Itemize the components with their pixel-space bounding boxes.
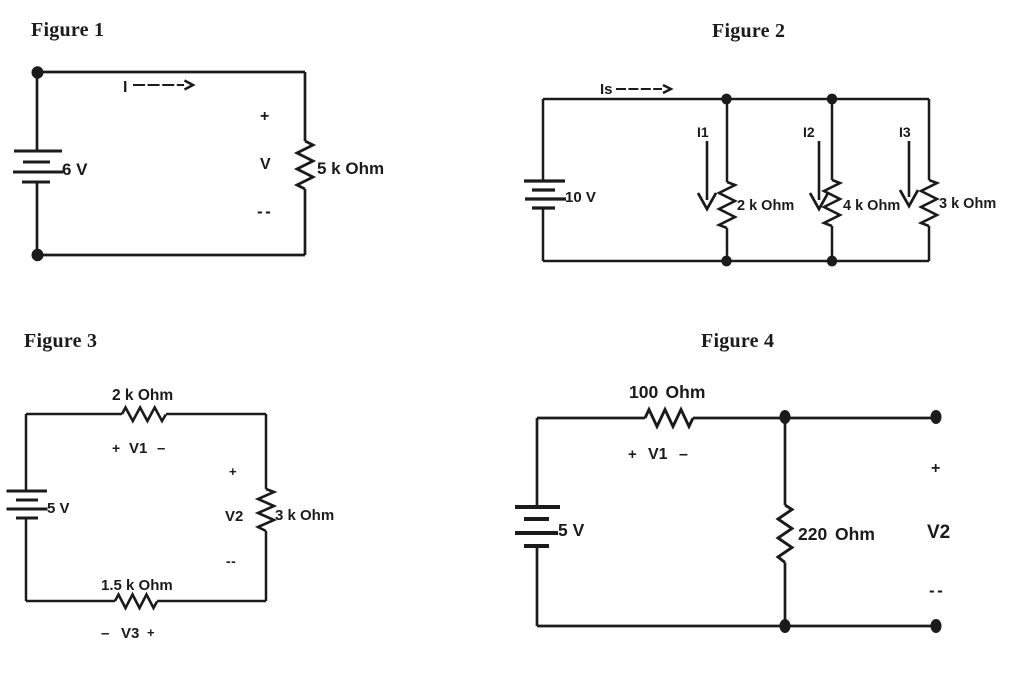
wire: fig3 bottom wire left segment (26, 600, 115, 603)
svg-text:Figure 2: Figure 2 (712, 20, 785, 42)
node: fig4 bottom-right terminal dot (931, 619, 942, 633)
battery 5V (fig3) (7, 491, 48, 518)
node: fig1 bottom-left junction dot (32, 249, 44, 261)
figure title: Figure 2 (712, 20, 785, 42)
wire: fig1 right wire lower (304, 189, 307, 255)
current arrow I (dashed) (123, 79, 193, 96)
svg-text:I2: I2 (803, 124, 815, 140)
wire: fig2 bottom wire (543, 260, 929, 263)
value label: 3 k Ohm (939, 196, 996, 212)
polarity label - (V2 fig3) (226, 553, 236, 569)
svg-text:V3: V3 (121, 625, 139, 642)
wire: fig2 top wire (543, 98, 929, 101)
svg-text:5 k Ohm: 5 k Ohm (317, 159, 384, 178)
svg-text:10 V: 10 V (565, 189, 596, 206)
wire: fig1 left wire lower (battery - to bottom) (36, 183, 39, 255)
svg-text:I: I (123, 79, 127, 96)
voltage label + V1 - (fig4) (628, 446, 688, 463)
svg-text:Figure 3: Figure 3 (24, 330, 97, 352)
wire: fig2 left wire lower (542, 209, 545, 261)
svg-text:I3: I3 (899, 124, 911, 140)
svg-text:V: V (260, 156, 271, 173)
svg-text:--: -- (226, 553, 236, 569)
current arrow I2 (803, 124, 828, 209)
svg-text:2 k Ohm: 2 k Ohm (112, 387, 173, 404)
value label: 1.5 k Ohm (101, 577, 173, 594)
wire: fig1 top wire (37, 71, 305, 74)
voltage label V2 (fig3) (225, 508, 243, 525)
node: fig4 top junction dot (node A) (780, 410, 791, 424)
svg-text:Figure 4: Figure 4 (701, 330, 774, 352)
svg-text:V1: V1 (129, 440, 147, 457)
svg-text:+: + (260, 108, 269, 125)
wire: fig3 left wire lower (25, 519, 28, 601)
resistor 3 k Ohm (fig3 right) (258, 489, 274, 531)
resistor 2 k Ohm (fig3 top) (122, 408, 166, 422)
value label: 4 k Ohm (843, 198, 900, 214)
svg-text:4 k Ohm: 4 k Ohm (843, 198, 900, 214)
wire: fig2 right wire lower (928, 226, 931, 261)
value label: 2 k Ohm (fig3) (112, 387, 173, 404)
wire: fig2 left wire upper (542, 99, 545, 181)
svg-text:220 Ohm: 220 Ohm (798, 524, 875, 544)
svg-text:100 Ohm: 100 Ohm (629, 382, 705, 402)
wire: fig4 top wire right segment (693, 417, 936, 420)
figure title: Figure 3 (24, 330, 97, 352)
polarity label + (V2 fig3) (229, 464, 237, 479)
svg-text:–: – (101, 625, 109, 642)
svg-text:+: + (628, 446, 637, 463)
wire: fig2 branch2 lower (831, 226, 834, 261)
resistor 2 k Ohm (fig2 branch1) (719, 182, 735, 228)
wire: fig4 left wire upper (536, 418, 539, 506)
voltage label - V3 + (fig3) (101, 625, 155, 642)
value label: 3 k Ohm (fig3) (275, 507, 334, 524)
wire: fig3 bottom wire right segment (157, 600, 266, 603)
polarity label + (V2 fig4) (931, 460, 940, 477)
battery 6V (fig1) (13, 151, 63, 182)
resistor 4 k Ohm (fig2 branch2) (824, 180, 840, 226)
svg-text:--: -- (929, 581, 945, 600)
wire: fig3 top wire right segment (166, 413, 266, 416)
wire: fig2 branch2 upper (831, 99, 834, 180)
voltage label V (fig1) (260, 156, 271, 173)
wire: fig4 top wire left segment (537, 417, 645, 420)
resistor 220 Ohm (fig4 middle) (778, 505, 792, 563)
node: fig2 bottom junction dot at branch 2 (827, 256, 837, 267)
svg-text:--: -- (257, 202, 273, 221)
polarity label - (V fig1) (257, 202, 273, 221)
voltage label + V1 - (fig3) (112, 440, 165, 457)
battery 5V (fig4) (515, 507, 560, 546)
value label: 10 V (565, 189, 596, 206)
value label: 5 k Ohm (317, 159, 384, 178)
svg-text:3 k Ohm: 3 k Ohm (275, 507, 334, 524)
svg-text:6 V: 6 V (62, 160, 88, 179)
wire: fig1 right wire upper (304, 72, 307, 141)
current arrow Is (dashed) (600, 81, 671, 98)
svg-text:+: + (229, 464, 237, 479)
resistor 1.5 k Ohm (fig3 bottom) (115, 595, 157, 609)
wire: fig3 left wire upper (25, 414, 28, 491)
svg-text:1.5 k Ohm: 1.5 k Ohm (101, 577, 173, 594)
svg-text:Figure 1: Figure 1 (31, 19, 104, 41)
svg-text:–: – (157, 440, 165, 457)
wire: fig4 left wire lower (536, 547, 539, 626)
node: fig4 top-right terminal dot (931, 410, 942, 424)
svg-text:+: + (112, 440, 120, 456)
wire: fig4 bottom wire (537, 625, 936, 628)
svg-text:+: + (931, 460, 940, 477)
wire: fig1 left wire upper (to battery +) (36, 72, 39, 150)
svg-text:5 V: 5 V (558, 520, 585, 540)
wire: fig3 right wire lower (265, 531, 268, 601)
svg-text:3 k Ohm: 3 k Ohm (939, 196, 996, 212)
value label: 5 V (fig4) (558, 520, 585, 540)
resistor 5 k Ohm (fig1) (297, 141, 313, 189)
wire: fig2 branch1 lower (726, 228, 729, 261)
wire: fig4 middle branch lower (784, 563, 787, 627)
svg-text:–: – (679, 446, 688, 463)
polarity label - (V2 fig4) (929, 581, 945, 600)
resistor 100 Ohm (fig4 top) (645, 410, 693, 427)
svg-text:I1: I1 (697, 124, 709, 140)
value label: 5 V (fig3) (47, 500, 70, 517)
svg-text:V2: V2 (927, 522, 950, 543)
resistor 3 k Ohm (fig2 right branch) (921, 180, 937, 226)
value label: 100 Ohm (629, 382, 705, 402)
figure title: Figure 4 (701, 330, 774, 352)
wire: fig2 right wire upper (928, 99, 931, 180)
node: fig2 bottom junction dot at branch 1 (721, 256, 731, 267)
wire: fig1 bottom wire (37, 254, 305, 257)
wire: fig4 middle branch upper (784, 418, 787, 505)
battery 10V (fig2) (524, 181, 566, 208)
wire: fig2 branch1 upper (726, 99, 729, 182)
node: fig4 bottom junction dot (node B) (780, 619, 791, 633)
figure title: Figure 1 (31, 19, 104, 41)
voltage label V2 (fig4) (927, 522, 950, 543)
value label: 2 k Ohm (737, 198, 794, 214)
svg-text:5 V: 5 V (47, 500, 70, 517)
node: fig2 top junction dot at branch 1 (721, 94, 731, 105)
current arrow I1 (697, 124, 716, 209)
wire: fig3 top wire left segment (26, 413, 122, 416)
svg-text:V2: V2 (225, 508, 243, 525)
node: fig1 top-left junction dot (32, 66, 44, 78)
svg-text:Is: Is (600, 81, 613, 98)
polarity label + (V fig1) (260, 108, 269, 125)
node: fig2 top junction dot at branch 2 (827, 94, 837, 105)
wire: fig3 right wire upper (265, 414, 268, 489)
svg-text:V1: V1 (648, 446, 668, 463)
svg-text:2 k Ohm: 2 k Ohm (737, 198, 794, 214)
svg-text:+: + (147, 625, 155, 640)
value label: 220 Ohm (798, 524, 875, 544)
current arrow I3 (899, 124, 918, 206)
value label: 6 V (62, 160, 88, 179)
